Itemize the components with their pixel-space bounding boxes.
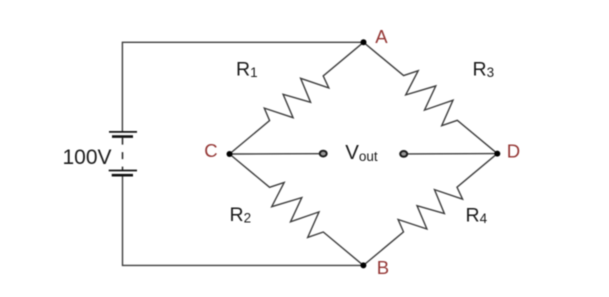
svg-text:R3: R3: [473, 58, 495, 80]
wire C to Vout left terminal: [230, 153, 319, 155]
svg-text:R4: R4: [466, 205, 488, 227]
svg-text:C: C: [204, 140, 217, 161]
svg-text:Vout: Vout: [345, 141, 378, 164]
node D: [494, 151, 500, 157]
Vout right terminal: [400, 151, 407, 157]
svg-text:R1: R1: [236, 58, 258, 80]
svg-text:D: D: [507, 140, 520, 161]
resistor R2: [230, 154, 364, 265]
wire bottom (battery - to node B): [123, 176, 364, 265]
Vout left terminal: [320, 151, 327, 157]
node C: [227, 151, 233, 157]
wire top (battery + to node A): [122, 42, 363, 131]
svg-text:100V: 100V: [63, 146, 112, 169]
svg-text:A: A: [375, 26, 388, 47]
resistor R4: [363, 154, 497, 266]
svg-text:B: B: [377, 257, 389, 278]
node A: [361, 39, 367, 45]
wire Vout right terminal to D: [408, 153, 497, 155]
resistor R3: [364, 42, 498, 153]
battery V1: [109, 132, 137, 175]
node B: [360, 262, 366, 268]
resistor R1: [230, 42, 364, 154]
svg-text:R2: R2: [230, 204, 252, 226]
